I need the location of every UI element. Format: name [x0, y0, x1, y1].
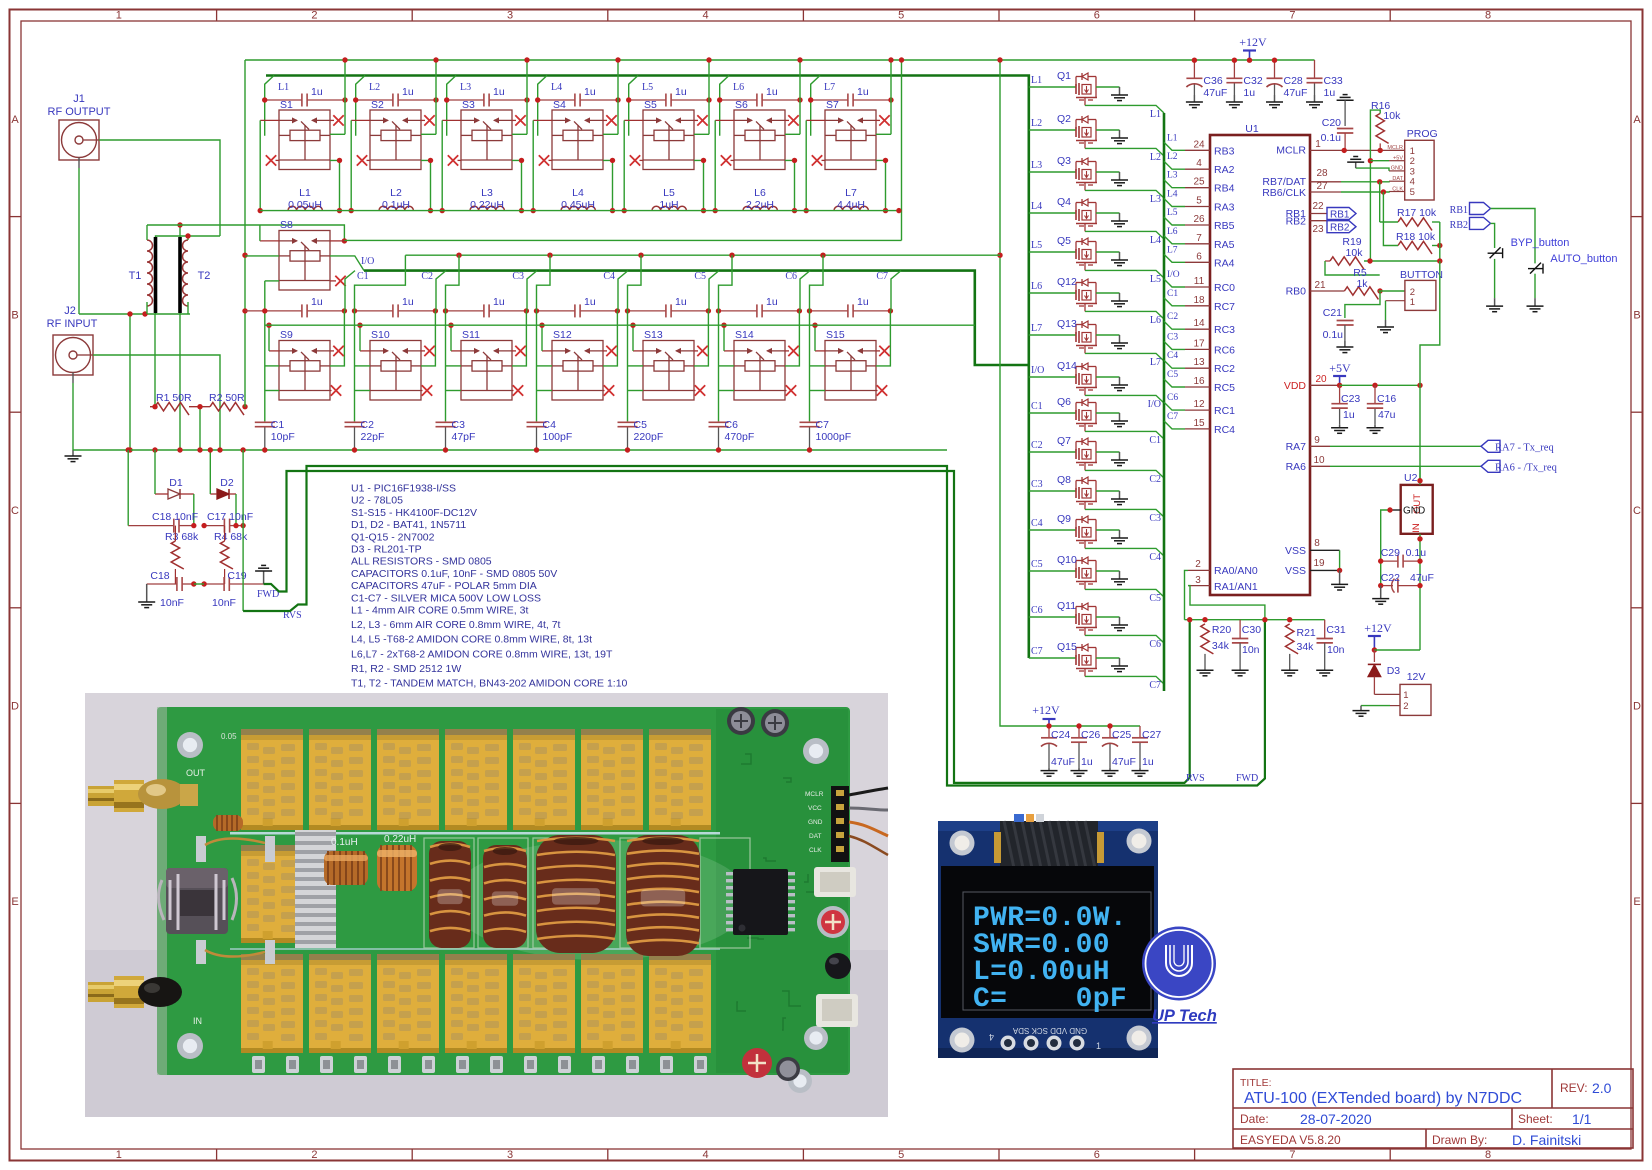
svg-text:22: 22 [1312, 201, 1324, 212]
ground C33 [1306, 95, 1323, 108]
wire pin 6 stub [1164, 254, 1185, 262]
svg-text:C22: C22 [1381, 572, 1400, 584]
wire S10 coil feed [355, 255, 406, 311]
svg-text:47uF: 47uF [1410, 572, 1434, 584]
diode D2 [217, 489, 229, 499]
wire gate Q6 [1029, 412, 1076, 414]
wire RB2 to BYP [1491, 223, 1495, 248]
wire S7 bottom out [876, 160, 886, 210]
capacitor C36 47uF [1186, 60, 1202, 95]
svg-text:RC0: RC0 [1214, 282, 1235, 294]
node S6 ind left [713, 208, 718, 213]
wire S1 bottom out [330, 160, 340, 210]
node R2 right [242, 404, 247, 409]
resistor R20 34k [1201, 624, 1214, 654]
svg-text:L2: L2 [369, 82, 380, 93]
wire +12V bottom rail [1049, 725, 1140, 727]
wire bus L thick [266, 76, 1029, 659]
svg-text:C19: C19 [227, 570, 246, 582]
svg-text:ALL RESISTORS - SMD 0805: ALL RESISTORS - SMD 0805 [351, 556, 492, 568]
ground Q13 [1111, 335, 1128, 349]
svg-text:RF OUTPUT: RF OUTPUT [48, 106, 111, 118]
wire S1 arrows left [260, 119, 279, 121]
wire S3 arrows left [442, 119, 461, 121]
ground C23 [1331, 425, 1348, 434]
svg-text:6: 6 [1094, 10, 1100, 22]
wire S2 busA drop [435, 60, 437, 134]
svg-text:22pF: 22pF [361, 431, 385, 443]
wire D1 cathode [193, 494, 195, 526]
transistor Q13 [1076, 324, 1082, 326]
wire Q2 to gnd [1096, 129, 1120, 131]
svg-text:R21: R21 [1297, 627, 1316, 639]
svg-text:C31: C31 [1326, 624, 1345, 636]
photo connector 2 [816, 994, 858, 1027]
net flag L6 (top) [720, 76, 729, 136]
wire Q14 source to bus [1085, 395, 1164, 403]
ground Q10 [1111, 571, 1128, 585]
wire RB2 pin [1310, 220, 1327, 222]
svg-text:9: 9 [1314, 435, 1320, 446]
photo cap top1 [727, 707, 755, 735]
svg-text:4.4uH: 4.4uH [837, 199, 865, 211]
svg-text:L3: L3 [1167, 171, 1178, 181]
svg-text:6: 6 [1094, 1149, 1100, 1161]
node CLK R18 [1381, 189, 1386, 194]
svg-text:C3: C3 [512, 271, 524, 282]
wire x901 drop [901, 60, 903, 240]
photo toroid 2 [483, 845, 527, 948]
svg-text:Q10: Q10 [1057, 554, 1077, 566]
wire S1 busA drop [344, 60, 346, 134]
svg-text:MCLR: MCLR [805, 791, 824, 798]
X mark S14 bottom [786, 385, 796, 395]
svg-text:ATU-100 (EXTended board) by N7: ATU-100 (EXTended board) by N7DDC [1244, 1090, 1522, 1107]
junction bus450 x220 [217, 447, 222, 452]
wire S13 arrows left [633, 350, 643, 352]
ground BYP [1486, 298, 1503, 312]
resistor R19 10k [1330, 257, 1364, 270]
svg-text:J1: J1 [73, 93, 85, 105]
svg-text:MCLR: MCLR [1387, 145, 1403, 151]
svg-text:C28: C28 [1284, 75, 1303, 87]
svg-text:FWD: FWD [257, 589, 279, 600]
ground Q12 [1111, 293, 1128, 307]
svg-text:IN: IN [193, 1016, 202, 1026]
wire S2 arrows left [351, 119, 370, 121]
X mark S15 right [876, 350, 880, 352]
svg-text:E: E [1633, 896, 1640, 908]
wire DAT [1310, 181, 1341, 183]
photo silk line bottom [230, 948, 720, 950]
svg-text:D: D [11, 701, 19, 713]
svg-text:D3 - RL201-TP: D3 - RL201-TP [351, 544, 422, 556]
photo bottom relay row [241, 954, 303, 1053]
photo connector 1 [814, 867, 856, 897]
transistor Q2 [1076, 119, 1082, 121]
node row619 x1264.9 [1262, 617, 1267, 622]
wire x130 drop [129, 314, 131, 450]
PROG pin 5 [1389, 191, 1405, 193]
node S3 cap right [524, 97, 529, 102]
svg-text:C1: C1 [1167, 289, 1178, 299]
wire S7 busA drop [890, 60, 892, 134]
wire S11 arrows left [451, 350, 461, 352]
connector PROG [1405, 140, 1434, 200]
wire S3 bottom out [512, 160, 522, 210]
node S15 feed [820, 253, 825, 258]
connector J1 (RF OUTPUT) [48, 93, 111, 168]
wire gate Q8 [1029, 490, 1076, 492]
svg-text:26: 26 [1193, 214, 1205, 225]
photo PCB background+board [85, 693, 888, 1117]
relay S12 [552, 341, 603, 401]
svg-text:7: 7 [1289, 1149, 1295, 1161]
svg-text:RB1: RB1 [1330, 210, 1350, 221]
wire RB1 to AUTO [1491, 209, 1536, 264]
X mark S3 bottom [448, 155, 458, 165]
photo toroid 1 [429, 841, 471, 948]
ground AUTO [1527, 298, 1544, 312]
node U2 in [1417, 536, 1422, 541]
ground Q2 [1111, 130, 1128, 144]
svg-text:10: 10 [1313, 455, 1325, 466]
svg-text:1: 1 [116, 1149, 122, 1161]
wire S12 coil right [603, 311, 617, 366]
svg-text:S13: S13 [644, 329, 663, 341]
capacitor 1u (S14) [719, 304, 800, 317]
svg-text:C= 0pF: C= 0pF [973, 984, 1127, 1015]
wire U2 IN down [1419, 534, 1421, 650]
ground Q4 [1111, 213, 1128, 227]
wire gate Q10 [1029, 570, 1076, 572]
node busA x1000 [997, 57, 1002, 62]
wire J2 shell [72, 383, 74, 450]
wire S5 coil right [694, 133, 709, 135]
svg-text:C33: C33 [1324, 75, 1343, 87]
svg-text:RB3: RB3 [1214, 145, 1235, 157]
ground PROG GND [1356, 168, 1389, 171]
wire S2 bottom out [421, 160, 431, 210]
wire S8 coil right / IO flag [330, 256, 364, 271]
node x1420 vdd [1417, 383, 1422, 388]
node S6 cap left [717, 97, 722, 102]
wire RVS vert [242, 526, 244, 611]
node S3 ind right [519, 208, 524, 213]
wire pin 17 stub [1164, 341, 1185, 349]
svg-text:Q13: Q13 [1057, 318, 1077, 330]
svg-text:C6: C6 [1031, 605, 1043, 616]
photo OLED pins [1001, 1036, 1016, 1051]
relay S6 [734, 110, 785, 170]
svg-text:C2: C2 [1167, 312, 1178, 322]
svg-text:15: 15 [1193, 418, 1205, 429]
wire S2 coil right [421, 133, 436, 135]
svg-text:T1, T2 - TANDEM MATCH, BN43-20: T1, T2 - TANDEM MATCH, BN43-202 AMIDON C… [351, 678, 628, 690]
inductor L1 [288, 206, 322, 210]
wire pin 13 stub [1164, 360, 1185, 368]
capacitor 1u (S5) [629, 94, 709, 107]
svg-text:Q2: Q2 [1057, 113, 1071, 125]
svg-text:25: 25 [1193, 177, 1205, 188]
svg-text:A: A [11, 114, 19, 126]
wire pin 18 stub [1164, 298, 1185, 306]
svg-text:L2, L3 - 6mm AIR CORE 0.8mm WI: L2, L3 - 6mm AIR CORE 0.8mm WIRE, 4t, 7t [351, 619, 561, 631]
wire S4 busA drop [617, 60, 619, 134]
svg-text:1u: 1u [857, 86, 869, 98]
X mark S9 right [330, 350, 334, 352]
svg-text:4: 4 [989, 1032, 994, 1042]
wire Q11 source to bus [1085, 635, 1164, 643]
wire RA6 pin [1310, 465, 1330, 467]
relay S13 [643, 341, 694, 401]
svg-text:5: 5 [1410, 187, 1415, 198]
svg-text:100pF: 100pF [543, 431, 573, 443]
flag RB1 (U1) [1327, 208, 1356, 220]
wire S14 bottom left [719, 390, 735, 392]
wire pin 24 stub [1164, 142, 1185, 150]
svg-text:0.1u: 0.1u [1406, 547, 1427, 559]
svg-text:28: 28 [1316, 168, 1328, 179]
svg-text:12: 12 [1193, 399, 1205, 410]
node D2 anode [208, 447, 213, 452]
svg-text:U2: U2 [1404, 472, 1418, 484]
wire gate Q1 [1029, 86, 1076, 88]
wire R19 left drop [1325, 261, 1380, 275]
svg-text:47uF: 47uF [1112, 756, 1136, 768]
wire C18b-C19 link [194, 583, 204, 585]
svg-text:R18 10k: R18 10k [1396, 231, 1436, 243]
svg-text:C26: C26 [1081, 729, 1100, 741]
svg-text:VSS: VSS [1285, 545, 1306, 557]
svg-text:B: B [11, 309, 18, 321]
wire pin 3 RA1 [1188, 585, 1210, 587]
capacitor 1u (S1) [265, 94, 345, 107]
wire S15 bottom left [810, 390, 826, 392]
wire T2 coil bottom [187, 302, 189, 314]
junction bus450 x200 [197, 447, 202, 452]
IC U1 box [1210, 135, 1310, 595]
svg-text:10nF: 10nF [212, 597, 236, 609]
node 12vrail C26 [1076, 723, 1081, 728]
X mark S14 right [785, 350, 789, 352]
svg-text:Q8: Q8 [1057, 474, 1071, 486]
wire pin 5 stub [1164, 199, 1185, 207]
transistor Q5 [1076, 241, 1082, 243]
svg-text:11: 11 [1194, 276, 1205, 287]
node S11 feed [456, 253, 461, 258]
wire bus A +12V rail [245, 59, 1315, 61]
wire RVS sense [243, 466, 1265, 786]
wire S5 bottom out [694, 160, 704, 210]
ground C28 [1266, 95, 1283, 108]
svg-text:L4: L4 [1167, 190, 1178, 200]
connector BUTTON [1405, 280, 1436, 310]
svg-text:8: 8 [1314, 538, 1320, 549]
node C22 right [1417, 583, 1422, 588]
relay S14 [734, 341, 785, 401]
svg-text:2: 2 [1403, 701, 1408, 712]
wire Q14 to gnd [1096, 376, 1120, 378]
net flag C3 [527, 271, 537, 311]
svg-text:1u: 1u [584, 296, 596, 308]
svg-text:L2: L2 [1150, 152, 1161, 163]
svg-text:C7: C7 [816, 419, 830, 431]
node S12 row325 [539, 323, 544, 328]
photo cap red right [817, 906, 849, 938]
wire gate Q13 [1029, 334, 1076, 336]
svg-text:L6: L6 [1167, 227, 1178, 237]
wire S7 coil right [876, 133, 891, 135]
photo OLED holes [950, 831, 975, 856]
svg-text:0.1uH: 0.1uH [382, 199, 410, 211]
svg-text:28-07-2020: 28-07-2020 [1300, 1111, 1372, 1127]
svg-text:L5: L5 [642, 82, 653, 93]
wire Q10 to gnd [1096, 570, 1120, 572]
svg-text:0.22uH: 0.22uH [384, 834, 416, 845]
capacitor C20 0.1u [1337, 95, 1354, 101]
svg-text:0.05: 0.05 [221, 732, 237, 741]
svg-text:L3: L3 [1150, 194, 1161, 205]
svg-text:1u: 1u [1142, 756, 1154, 768]
node S4 cap right [615, 97, 620, 102]
node U2 gnd [1387, 507, 1392, 512]
svg-text:RC4: RC4 [1214, 424, 1235, 436]
wire Q1 source to bus [1085, 105, 1164, 113]
inductor L6 [743, 206, 777, 210]
node S9 cap left [262, 308, 267, 313]
svg-text:RA7: RA7 [1286, 441, 1307, 453]
ground C36 [1186, 95, 1203, 108]
wire J1 shell down [78, 168, 80, 314]
svg-text:E: E [11, 896, 18, 908]
node S7 cap left [808, 97, 813, 102]
svg-text:RB4: RB4 [1214, 183, 1235, 195]
junction bus450 x180 [177, 447, 182, 452]
node +5V PROG pin2 [1368, 158, 1373, 163]
ground Q15 [1111, 658, 1128, 672]
capacitor 1u (S4) [538, 94, 618, 107]
relay S15 [825, 341, 876, 401]
svg-text:1u: 1u [1081, 756, 1093, 768]
X mark S6 right [785, 119, 789, 121]
wire gate Q3 [1029, 171, 1076, 173]
wire S13 coil left [628, 365, 644, 367]
svg-text:C3: C3 [1031, 479, 1043, 490]
svg-text:L7: L7 [824, 82, 835, 93]
net flag C5 [709, 271, 719, 311]
wire +12V to U2 IN [1374, 649, 1420, 651]
capacitor C1 10pF [255, 421, 275, 450]
svg-text:Q1-Q15 - 2N7002: Q1-Q15 - 2N7002 [351, 531, 435, 543]
svg-text:Q1: Q1 [1057, 70, 1071, 82]
node +12V D3 [1372, 647, 1377, 652]
wire Q8 source to bus [1085, 509, 1164, 517]
node S2 busA [433, 57, 438, 62]
svg-text:D3: D3 [1387, 665, 1401, 677]
svg-text:FWD: FWD [1236, 773, 1258, 784]
svg-text:1u: 1u [584, 86, 596, 98]
svg-text:C17 10nF: C17 10nF [207, 511, 253, 523]
wire S4 bottom out [603, 160, 613, 210]
svg-text:0.45uH: 0.45uH [561, 199, 595, 211]
svg-text:19: 19 [1313, 558, 1325, 569]
svg-text:L1: L1 [1031, 75, 1042, 86]
node C17 right3 [240, 523, 245, 528]
svg-text:R2 50R: R2 50R [209, 392, 245, 404]
capacitor C27 1u [1132, 726, 1148, 768]
wire Q3 source to bus [1085, 190, 1164, 198]
ground C21 [1336, 341, 1353, 353]
wire PROG +5V [1370, 160, 1389, 162]
node T2 coil top [185, 233, 190, 238]
X mark S7 right [876, 119, 880, 121]
svg-text:34k: 34k [1212, 640, 1230, 652]
node S7 cap right [888, 97, 893, 102]
wire Q3 to gnd [1096, 171, 1120, 173]
svg-text:1000pF: 1000pF [816, 431, 852, 443]
svg-text:1k: 1k [1356, 278, 1368, 290]
X mark S13 right [694, 350, 698, 352]
svg-text:L4: L4 [572, 187, 584, 199]
svg-text:D. Fainitski: D. Fainitski [1512, 1132, 1581, 1148]
transistor Q8 [1076, 480, 1082, 482]
svg-text:L7: L7 [1031, 323, 1042, 334]
svg-text:L6: L6 [733, 82, 744, 93]
ground U2 [1372, 586, 1389, 605]
wire S9 coil right [330, 311, 344, 366]
svg-text:4: 4 [1196, 158, 1202, 169]
svg-text:RB2: RB2 [1450, 220, 1468, 231]
photo middle relay S8 [241, 845, 303, 943]
svg-text:S8: S8 [280, 219, 293, 231]
svg-text:VCC: VCC [808, 805, 822, 812]
wire gate Q12 [1029, 292, 1076, 294]
svg-text:C16: C16 [1377, 393, 1396, 405]
ground Q14 [1111, 377, 1128, 391]
wire S11 coil feed [446, 255, 460, 311]
node MCLR C20 [1342, 148, 1347, 153]
node C19 left [201, 581, 206, 586]
wire gate Q9 [1029, 529, 1076, 531]
svg-text:S14: S14 [735, 329, 754, 341]
node S6 busA [797, 57, 802, 62]
wire pin 25 stub [1164, 180, 1185, 188]
node S11 row325 [448, 323, 453, 328]
ground J2 [65, 450, 82, 462]
svg-text:C3: C3 [1167, 332, 1178, 342]
node S10 cap right [433, 308, 438, 313]
wire S12 arrows left [542, 350, 552, 352]
capacitor 1u (S13) [628, 304, 709, 317]
wire Q6 to gnd [1096, 412, 1120, 414]
relay S1 [279, 110, 330, 170]
wire pin 7 stub [1164, 236, 1185, 244]
node S8 arrows right [342, 238, 347, 243]
node S6 bottom [792, 158, 797, 163]
svg-text:C4: C4 [543, 419, 557, 431]
svg-text:1uH: 1uH [659, 199, 678, 211]
node row619 x1189.7 [1187, 617, 1192, 622]
node S14 cap right [797, 308, 802, 313]
svg-text:A: A [1633, 114, 1641, 126]
svg-text:CLK: CLK [1392, 186, 1403, 192]
wire bus IO thick [364, 271, 1029, 365]
svg-text:C5: C5 [694, 271, 706, 282]
transistor Q3 [1076, 161, 1082, 163]
svg-text:C1: C1 [1149, 435, 1161, 446]
wire +5V vertical [1370, 110, 1380, 261]
